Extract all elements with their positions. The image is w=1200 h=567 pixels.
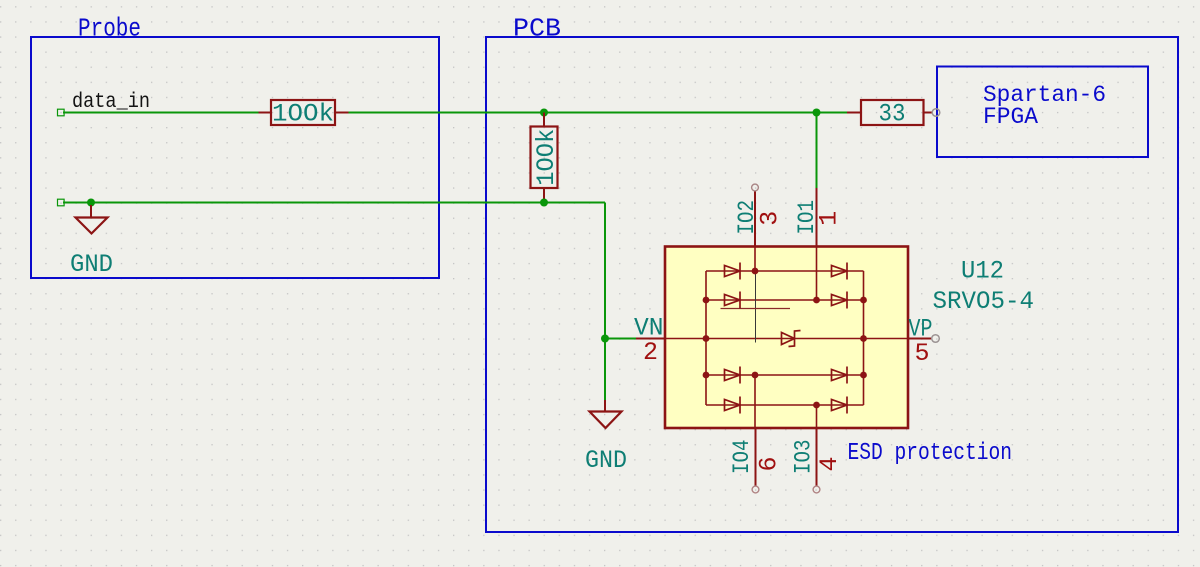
chip inner IO2 stub [754, 247, 756, 272]
resistor R 33 [847, 100, 933, 125]
diode D row1 right [832, 263, 848, 280]
diode D row4 left [725, 397, 741, 414]
ground symbol probe [76, 205, 108, 234]
ground symbol pcb [590, 400, 622, 428]
resistor R 100k vertical [531, 113, 558, 200]
pin 5 VP [908, 338, 932, 340]
pin 1 IO1 [816, 188, 818, 247]
dangling wire end square 2 [58, 199, 65, 206]
svg-text:6: 6 [755, 456, 784, 471]
pin 6 IO4 [755, 428, 757, 486]
wire data_in left segment [63, 112, 259, 114]
junction at probe gnd [87, 199, 95, 207]
chip inner center VN-VP line [665, 338, 908, 340]
chip inner IO3 stub [816, 405, 818, 428]
junction below vertical resistor [540, 199, 548, 207]
svg-text:U12: U12 [961, 257, 1004, 286]
svg-text:IO4: IO4 [729, 440, 755, 475]
diode D row2 right [832, 292, 848, 309]
diode D row3 left [725, 367, 741, 384]
svg-text:1: 1 [815, 211, 844, 226]
diode D row2 left [725, 292, 741, 309]
svg-text:FPGA: FPGA [983, 104, 1038, 130]
sheet Probe [31, 37, 439, 278]
diode D row1 left [725, 263, 741, 280]
svg-text:GND: GND [585, 446, 627, 475]
wire VN stub [605, 338, 636, 340]
sheet PCB [486, 37, 1178, 532]
dangling wire end square [58, 109, 65, 116]
svg-text:33: 33 [879, 100, 906, 129]
open pin end circle at 33 [932, 109, 940, 117]
chip inner row4 [706, 404, 864, 406]
svg-text:data_in: data_in [72, 91, 150, 114]
resistor R 100k horizontal [259, 100, 349, 125]
pin 3 open end circle [752, 184, 759, 191]
chip inner IO4 stub [754, 375, 756, 428]
pin 6 open end circle [752, 486, 759, 493]
svg-text:GND: GND [70, 250, 113, 279]
svg-text:Probe: Probe [78, 14, 141, 44]
chip inner row2 [706, 299, 864, 301]
svg-text:ESD protection: ESD protection [848, 440, 1013, 467]
svg-text:1OOk: 1OOk [532, 129, 561, 186]
chip inner right rail [863, 271, 865, 405]
junction at IO1 branch [813, 109, 821, 117]
chip inner row1 [706, 270, 864, 272]
junction at VN [601, 335, 609, 343]
wire gnd horizontal [63, 202, 605, 204]
svg-text:3: 3 [755, 211, 784, 226]
junction at vertical resistor top [540, 109, 548, 117]
pin 4 IO3 [816, 428, 818, 486]
artifact thin vertical line [755, 271, 757, 343]
diode D row3 right [832, 367, 848, 384]
wire top horizontal to 33 resistor [349, 112, 848, 114]
pin 5 open end circle [932, 335, 940, 343]
svg-text:1OOk: 1OOk [272, 100, 334, 129]
svg-text:2: 2 [643, 338, 658, 367]
chip inner IO1 stub [816, 247, 818, 301]
svg-text:IO3: IO3 [791, 440, 817, 475]
chip inner row3 [706, 374, 864, 376]
svg-text:5: 5 [915, 339, 930, 368]
svg-text:PCB: PCB [513, 14, 561, 44]
pin 3 IO2 [754, 191, 756, 247]
ESD chip U12 body [665, 247, 908, 429]
wire vertical to pcb gnd [604, 203, 606, 401]
chip junction dots [703, 268, 867, 409]
svg-text:SRVO5-4: SRVO5-4 [933, 287, 1035, 316]
svg-text:4: 4 [815, 456, 844, 471]
wire IO1 vertical [816, 113, 818, 189]
chip inner left rail [705, 271, 707, 405]
pin 2 VN [636, 338, 665, 340]
sheet Spartan-6 FPGA [937, 67, 1148, 158]
TVS diode center [782, 331, 801, 347]
pin 4 open end circle [813, 486, 820, 493]
artifact thin horizontal line [721, 308, 791, 310]
diode D row4 right [832, 397, 848, 414]
